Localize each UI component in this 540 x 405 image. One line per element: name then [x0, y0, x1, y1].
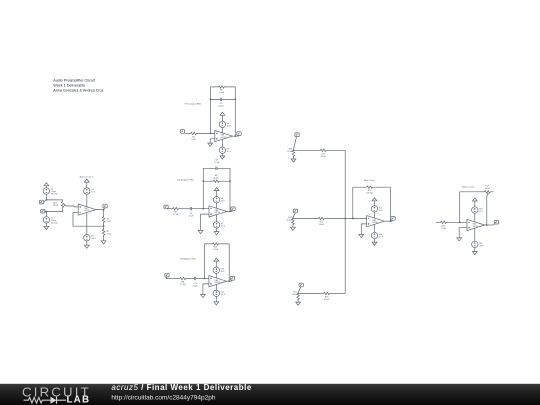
wire V1 to node IN_L — [45, 194, 47, 200]
wire + input to ground — [361, 224, 366, 232]
svg-text:-15 V: -15 V — [221, 226, 226, 228]
resistor R18 — [323, 292, 330, 295]
op-amp OA6 — [367, 216, 385, 227]
junction — [46, 211, 47, 212]
ground at + input — [198, 228, 203, 233]
wire pot bottom to node IN_R — [46, 208, 62, 211]
svg-text:-15 V: -15 V — [479, 245, 484, 247]
svg-text:10 mVp: 10 mVp — [51, 222, 58, 224]
junction output — [486, 224, 487, 225]
source V16 — [371, 232, 377, 238]
output wire — [485, 224, 494, 226]
svg-text:10 kΩ: 10 kΩ — [319, 224, 325, 226]
source V8 — [216, 193, 218, 197]
wire R5 to op-amp - input — [197, 132, 215, 134]
ground below R12 — [291, 157, 296, 162]
node tag STG2_OUT — [231, 207, 235, 211]
svg-text:10 kΩ: 10 kΩ — [324, 299, 330, 301]
wire V8 to op-amp — [216, 203, 218, 209]
svg-text:27 µF: 27 µF — [193, 286, 199, 288]
feedback right vertical wire — [228, 244, 230, 281]
source V6 — [219, 147, 225, 153]
resistor R9 — [172, 207, 179, 210]
node tag STG2_IN — [164, 205, 168, 209]
svg-text:(2 µF): (2 µF) — [218, 105, 223, 107]
ground at + input — [208, 141, 213, 146]
wire branch 1 — [294, 149, 320, 151]
svg-text:50 kΩ: 50 kΩ — [485, 188, 491, 190]
title block — [53, 78, 103, 92]
svg-text:10 kΩ: 10 kΩ — [287, 151, 293, 153]
summing bus vertical wire — [344, 150, 346, 293]
wire node to pot top — [46, 200, 62, 201]
source V4 — [84, 235, 90, 241]
feedback right vertical wire — [390, 187, 392, 221]
wire R11 to C11 — [186, 278, 194, 280]
node tag STG3_IN — [165, 273, 169, 277]
svg-text:LM741: LM741 — [84, 210, 90, 212]
ground below V4 — [86, 241, 88, 243]
junctions on verticals at second rail — [203, 181, 204, 182]
ground (up) above V5 — [220, 112, 225, 117]
node tag MIX_IN1 — [295, 133, 299, 137]
junction feedback tap — [204, 278, 205, 279]
ground below V6 — [221, 152, 223, 155]
junction feedback tap — [210, 133, 211, 134]
resistor R20 — [440, 221, 447, 224]
wiper arrow of R19 — [487, 193, 489, 196]
resistor R12 to ground — [292, 150, 295, 157]
svg-text:1 kΩ: 1 kΩ — [107, 221, 112, 223]
junction output — [390, 221, 391, 222]
source V2 — [45, 212, 47, 217]
ground below R14 — [291, 225, 296, 230]
ground below R2 — [103, 236, 105, 239]
feedback top rail with capacitor C8 — [203, 167, 230, 169]
wire + input to ground — [210, 139, 215, 141]
feedback wire divider to op-amp - input — [73, 212, 104, 226]
source V18 — [474, 203, 476, 207]
svg-text:-15 V: -15 V — [91, 238, 96, 240]
svg-text:LM741: LM741 — [372, 222, 378, 224]
capacitor C9 — [190, 207, 191, 210]
svg-text:LM741: LM741 — [220, 137, 226, 139]
source V9 — [213, 222, 219, 228]
svg-text:Mixer Circuit: Mixer Circuit — [364, 179, 375, 182]
op-amp OA7 — [467, 219, 485, 230]
resistor R13 — [320, 149, 327, 152]
feedback top rail — [460, 191, 494, 193]
svg-text:http://circuitlab.com/c2844y79: http://circuitlab.com/c2844y794p2ph — [111, 395, 215, 402]
wire output down to R1 — [103, 210, 105, 216]
svg-text:LM741: LM741 — [215, 282, 221, 284]
node tag VOL_OUT — [494, 220, 498, 224]
wire wiper to op-amp + input — [66, 205, 78, 208]
wire op-amp to V19 — [474, 228, 476, 241]
ground below V11 — [215, 296, 217, 300]
wire R1 to R2 — [103, 223, 105, 229]
feedback top rail with resistor R16 — [353, 186, 391, 188]
wire V15 to op-amp — [374, 212, 376, 218]
feedback second rail with capacitor C7 — [211, 98, 236, 100]
svg-text:Week 1 Deliverable: Week 1 Deliverable — [53, 84, 85, 88]
wire op-amp to V16 — [374, 224, 376, 232]
resistor R14 to ground — [292, 218, 295, 225]
svg-text:27 µF: 27 µF — [188, 216, 194, 218]
svg-text:2.7 µF: 2.7 µF — [214, 162, 220, 164]
source V3 — [86, 184, 88, 188]
ground (up) above V10 — [214, 258, 219, 263]
feedback right vertical wire — [234, 87, 236, 136]
resistor R5 — [190, 132, 197, 135]
wire C9 to op-amp - input — [192, 208, 210, 210]
junction branch 3 — [297, 293, 298, 294]
resistor R15 — [318, 217, 325, 220]
svg-text:50 kΩ: 50 kΩ — [214, 178, 220, 180]
svg-text:Volume Circuit: Volume Circuit — [462, 185, 475, 188]
wire op-amp output — [96, 209, 104, 211]
svg-text:1.2 kΩ: 1.2 kΩ — [173, 214, 179, 216]
wire R20 to op-amp - input — [447, 221, 467, 223]
feedback left vertical wire — [352, 187, 354, 218]
svg-text:-15 V: -15 V — [221, 294, 226, 296]
ground (up) above V15 — [372, 198, 377, 203]
svg-text:1 kΩ: 1 kΩ — [441, 228, 446, 230]
feedback left vertical wire — [459, 192, 461, 223]
junction at output — [103, 209, 104, 210]
op-amp OA5 — [209, 276, 227, 287]
svg-text:First Lowpass Filter: First Lowpass Filter — [185, 103, 202, 106]
junction feedback tap — [459, 222, 460, 223]
node tag MIX_IN2 — [293, 209, 297, 213]
ground below V9 — [216, 228, 218, 230]
svg-text:10 kΩ: 10 kΩ — [292, 294, 298, 296]
svg-text:1 kΩ: 1 kΩ — [107, 234, 112, 236]
ground below V16 — [374, 239, 376, 241]
node tag STG1_IN — [180, 130, 184, 134]
ground below V2 — [45, 223, 47, 224]
wire branch 2 to resistor R15 — [293, 218, 318, 220]
junction output — [229, 281, 230, 282]
wire branch 3 — [298, 292, 323, 294]
resistor R11 — [179, 277, 186, 280]
wire input — [168, 208, 173, 210]
feedback top rail with resistor R6 — [211, 86, 236, 88]
node tag STG1_OUT — [237, 132, 241, 136]
footer bar — [0, 383, 540, 405]
junction branch 2 — [292, 218, 293, 219]
wire input — [436, 221, 440, 223]
wire op-amp to V11 — [215, 285, 217, 291]
feedback right vertical wire (wiper to output) — [486, 196, 488, 225]
junction — [46, 199, 47, 200]
wire R18 to bus — [330, 292, 345, 294]
logo wire: lead, resistor zigzag, diode — [24, 397, 51, 403]
junction bus / op-amp input — [345, 218, 346, 219]
svg-text:LM741: LM741 — [473, 226, 479, 228]
svg-text:3rd Highpass Filter: 3rd Highpass Filter — [180, 258, 196, 261]
wire op-amp V- pin to V4 — [86, 213, 88, 235]
op-amp OA1 — [78, 204, 96, 215]
svg-text:1.2 kΩ: 1.2 kΩ — [180, 284, 186, 286]
svg-text:acruz5 / Final Week 1 Delivera: acruz5 / Final Week 1 Deliverable — [111, 383, 251, 392]
node tag IN_L — [39, 200, 43, 204]
wire V5 to op-amp — [221, 127, 223, 133]
svg-text:10 kΩ: 10 kΩ — [53, 205, 59, 207]
wire C11 to op-amp - input — [196, 278, 209, 280]
feedback left vertical wire — [204, 244, 206, 279]
feedback left vertical wire — [210, 87, 212, 133]
junction output — [229, 211, 230, 212]
ground below R17 — [296, 300, 301, 305]
capacitor C11 — [195, 277, 196, 280]
source V11 — [213, 290, 219, 296]
svg-text:2 kΩ: 2 kΩ — [192, 139, 197, 141]
resistor R1 — [102, 216, 105, 223]
output wire — [227, 210, 232, 212]
wire input — [186, 132, 191, 134]
wire + input to ground — [203, 284, 209, 292]
wire input — [166, 278, 179, 280]
node tag MIX_OUT — [391, 217, 395, 221]
node tag MIX_IN3 — [299, 283, 303, 287]
source V10 — [215, 263, 217, 267]
ground (up) above V3 — [84, 179, 89, 184]
wire op-amp to V9 — [216, 215, 218, 222]
op-amp OA4 — [209, 206, 227, 217]
svg-text:Anna Gonzalez & Andrea Cruz: Anna Gonzalez & Andrea Cruz — [53, 89, 103, 93]
feedback top rail with resistor R10 — [205, 243, 230, 245]
node tag OUT_BAL — [103, 204, 107, 208]
ground (up) above V1 — [44, 183, 49, 188]
feedback second rail with resistor R8 — [203, 180, 230, 182]
svg-text:Audio Preamplifier Circuit: Audio Preamplifier Circuit — [53, 78, 95, 82]
svg-text:1.2 kΩ: 1.2 kΩ — [213, 249, 219, 251]
svg-text:2nd Bandpass Filter: 2nd Bandpass Filter — [177, 179, 194, 182]
svg-text:-15 V: -15 V — [379, 236, 384, 238]
feedback left vertical wire — [202, 168, 204, 208]
svg-text:(2 kΩ): (2 kΩ) — [219, 92, 225, 94]
ground (up) above V8 — [214, 188, 219, 193]
node tag STG3_OUT — [230, 277, 234, 281]
junction divider — [103, 226, 104, 227]
wire R15 to op-amp - input — [325, 218, 367, 220]
svg-text:10 kΩ: 10 kΩ — [321, 156, 327, 158]
wire + input to ground — [459, 228, 467, 236]
junction branch 1 — [293, 150, 294, 151]
ground at + input — [201, 292, 206, 297]
op-amp OA3 — [215, 131, 233, 142]
junction feedback tap — [203, 208, 204, 209]
svg-text:(10 kΩ): (10 kΩ) — [366, 193, 373, 195]
svg-text:LM741: LM741 — [215, 212, 221, 214]
output wire — [233, 135, 239, 137]
source V5 — [221, 118, 223, 122]
wire + input to ground — [201, 214, 209, 228]
potentiometer Rpot — [61, 201, 64, 208]
ground below V19 — [474, 247, 476, 249]
wire op-amp to V6 — [221, 139, 223, 147]
output wire — [384, 220, 391, 222]
source V19 — [472, 241, 478, 247]
svg-text:Balance Circuit: Balance Circuit — [80, 176, 94, 179]
svg-text:10 mVp: 10 mVp — [51, 193, 58, 195]
source V1 — [43, 188, 49, 194]
wire R9 to C9 — [179, 208, 190, 210]
wire R13 to bus — [327, 149, 346, 151]
wire V3 to op-amp V+ pin — [86, 194, 88, 207]
source V15 — [374, 203, 376, 206]
junction output — [235, 135, 236, 136]
ground at + input — [359, 232, 364, 237]
resistor R2 — [102, 229, 105, 236]
ground (up) above V18 — [472, 198, 477, 203]
node tag IN_R — [41, 209, 45, 213]
ground at + input — [457, 236, 462, 241]
wire V18 to op-amp — [474, 213, 476, 222]
wire V10 to op-amp — [215, 273, 217, 278]
junction feedback tap — [352, 218, 353, 219]
potentiometer R19 — [484, 191, 491, 194]
feedback right vertical wire — [229, 168, 231, 211]
svg-text:10 kΩ: 10 kΩ — [287, 219, 293, 221]
svg-text:-15 V: -15 V — [227, 151, 232, 153]
svg-text:LAB: LAB — [67, 395, 91, 405]
output wire — [227, 280, 232, 282]
resistor R17 to ground — [297, 293, 300, 300]
junction on left vertical at second rail — [210, 99, 211, 100]
